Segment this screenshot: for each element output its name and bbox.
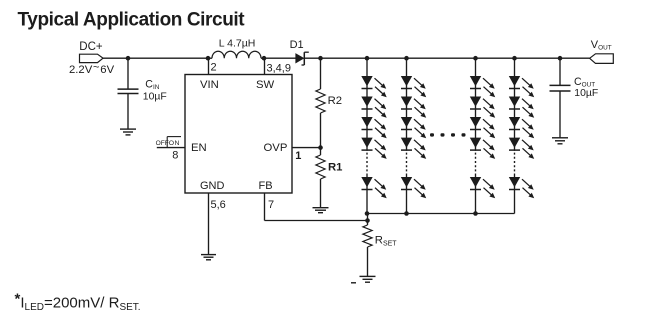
ellipsis dots between LED strings [430,133,466,136]
wire LED string 2 top [406,58,408,151]
resistor R1 [316,155,325,179]
dotted continuation LED string 1 [366,153,368,172]
LED string 2 diode 1 [401,76,426,97]
dotted continuation LED string 2 [406,153,408,172]
svg-text:5,6: 5,6 [211,199,226,211]
LED string 4 diode 3 [509,117,534,138]
resistor RSET [363,225,372,247]
LED string 1 diode 4 [361,138,386,159]
svg-text:OVP: OVP [264,142,288,154]
wire bottom rail to RSET [367,214,369,226]
wire CIN node to VIN node [128,57,209,59]
node junction D1/R2 [318,56,323,61]
node junction top rail / LED string 3 [473,56,478,61]
svg-text:FB: FB [259,180,273,192]
LED string 4 diode 5 [509,177,534,198]
node junction COUT [558,56,563,61]
LED string 2 diode 2 [401,97,426,118]
svg-text:OFF: OFF [156,140,169,147]
node junction top rail / LED string 4 [512,56,517,61]
capacitor COUT bottom lead [559,91,561,138]
wire EN pin lead (pin 8) [157,147,185,149]
LED string 1 diode 1 [361,76,386,97]
LED string 1 diode 3 [361,117,386,138]
LED string 2 diode 5 [401,177,426,198]
inductor L 4.7uH [212,51,261,58]
wire top rail col4 to COUT [515,57,561,59]
wire FB pin lead (pin 7) down and right to RSET [265,193,368,221]
svg-text:7: 7 [268,199,274,211]
svg-text:3,4,9: 3,4,9 [267,62,291,74]
wire OVP pin lead (pin 1) [292,147,321,149]
wire R2 to OVP node [320,113,322,155]
wire R2 node to LED rail [321,57,368,59]
port DC+ input tag [80,54,104,62]
capacitor CIN plates [118,89,139,93]
svg-text:DC+: DC+ [79,41,103,53]
svg-text:R1: R1 [328,162,342,174]
svg-text:10µF: 10µF [574,88,598,99]
wire LED bottom rail [367,213,515,215]
dotted continuation LED string 4 [514,153,516,172]
wire LED string 3 lower [475,174,477,214]
node junction SW / inductor right [262,56,267,61]
LED string 3 diode 5 [470,177,495,198]
svg-text:1: 1 [295,150,301,162]
wire RSET to ground [367,247,369,276]
capacitor COUT plates [550,85,571,91]
svg-text:SW: SW [256,79,275,91]
wire LED string 4 lower [514,174,516,214]
svg-text:2: 2 [211,62,217,74]
node junction bottom rail [404,211,409,216]
wire LED string 4 top [514,58,516,151]
wire R1 to ground [320,179,322,208]
wire inductor ends [208,57,264,59]
LED string 4 diode 4 [509,138,534,159]
svg-text:D1: D1 [290,39,304,51]
ground below COUT [552,138,568,144]
LED string 3 diode 3 [470,117,495,138]
node junction bottom rail [473,211,478,216]
wire top rail across LED strings [367,57,515,59]
svg-text:8: 8 [172,150,178,162]
LED string 4 diode 2 [509,97,534,118]
stray dash mark [351,282,356,284]
LED string 1 diode 5 [361,177,386,198]
svg-text:2.2V~6V: 2.2V~6V [69,62,115,76]
pin stub VIN (pin 2) [208,58,210,74]
op IC U1 body [185,75,292,194]
svg-text:EN: EN [191,142,207,154]
waveform OFF/ON enable annotation [167,137,181,148]
svg-text:GND: GND [200,180,225,192]
LED string 3 diode 4 [470,138,495,159]
wire LED string 1 lower [366,174,368,214]
svg-text:Typical Application Circuit: Typical Application Circuit [18,9,246,30]
ground below CIN [120,129,136,135]
node junction top rail / LED string 1 [365,56,370,61]
wire GND pin lead (pins 5,6) [208,193,210,255]
capacitor CIN top lead [127,58,129,89]
wire LED string 2 lower [406,174,408,214]
LED string 3 diode 2 [470,97,495,118]
node junction top rail / LED string 2 [404,56,409,61]
wire LED string 1 top [366,58,368,151]
wire SW node to D1 anode [264,57,296,59]
wire LED string 3 top [475,58,477,151]
wire top rail to R2 [320,58,322,89]
node junction at CIN [126,56,131,61]
LED string 3 diode 1 [470,76,495,97]
LED string 2 diode 4 [401,138,426,159]
node junction FB / RSET [365,218,370,223]
ground below IC GND [201,255,216,260]
LED string 4 diode 1 [509,76,534,97]
svg-text:R2: R2 [328,95,342,107]
svg-text:10µF: 10µF [143,91,167,102]
resistor R2 [316,89,325,113]
dotted continuation LED string 3 [475,153,477,172]
ground below R1 [313,208,329,213]
svg-text:VIN: VIN [200,79,219,91]
pin stub SW (pins 3,4,9) [264,58,266,74]
ground below RSET [360,276,376,282]
diode D1 (schottky) [296,52,309,65]
node junction bottom rail [365,211,370,216]
wire COUT node to VOUT tag [560,57,590,59]
svg-text:L 4.7µH: L 4.7µH [219,37,256,49]
LED string 2 diode 3 [401,117,426,138]
svg-text:ON: ON [169,140,180,147]
capacitor COUT top lead [559,58,561,85]
wire DC+ tip to CIN node [103,57,128,59]
port VOUT output tag [590,54,614,64]
capacitor CIN bottom lead [127,94,129,130]
node junction OVP/R1/R2 [318,145,323,150]
node junction VIN / inductor left [206,56,211,61]
LED string 1 diode 2 [361,97,386,118]
wire D1 cathode to R2 node [304,57,320,59]
